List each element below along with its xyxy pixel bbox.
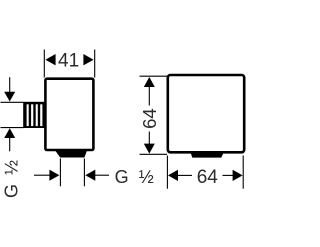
bottom-left G1/2 dimension: right extension line	[83, 159, 85, 187]
bottom 64 dimension: right extension line	[242, 156, 244, 189]
svg-text:64: 64	[197, 167, 219, 188]
svg-text:½: ½	[139, 167, 154, 187]
left G1/2 dimension: down arrowhead	[4, 92, 15, 102]
bottom 64 dimension: left extension line	[166, 156, 168, 189]
bottom 64 dimension: right line segment	[223, 174, 234, 176]
svg-text:41: 41	[58, 51, 79, 72]
face plate front view	[168, 75, 244, 152]
svg-text:G: G	[115, 167, 129, 187]
svg-text:64: 64	[139, 108, 160, 129]
left G1/2 dimension: up arrowhead	[4, 128, 15, 138]
left 64 dimension: top extension line	[140, 75, 168, 77]
bottom-left G1/2 dimension: right-pointing arrowhead	[49, 170, 59, 181]
dimension 41: right extension line	[94, 50, 96, 78]
left 64 dimension: bottom extension line	[140, 153, 168, 155]
outlet nub side view	[55, 150, 87, 158]
left G1/2 dimension: lower leader line	[9, 138, 11, 152]
threaded pipe	[23, 102, 44, 128]
left G1/2 dimension: top extension line	[1, 101, 24, 103]
svg-text:G ½: G ½	[2, 160, 22, 198]
wall plate side view	[45, 79, 93, 150]
left 64 dimension: up arrowhead	[144, 77, 155, 87]
left 64 dimension: upper line segment	[148, 87, 150, 106]
left 64 dimension: lower line segment	[148, 132, 150, 145]
dimension 41: left arrowhead	[45, 54, 55, 65]
bottom-left G1/2 dimension: left leader line	[34, 174, 50, 176]
left G1/2 dimension: bottom extension line	[1, 127, 24, 129]
left G1/2 dimension: upper leader line	[9, 77, 11, 92]
dimension 41: left extension line	[43, 50, 45, 78]
dimension 41: right arrowhead	[83, 54, 93, 65]
bottom 64 dimension: right arrowhead	[233, 170, 243, 181]
bottom 64 dimension: left arrowhead	[168, 170, 178, 181]
bottom-left G1/2 dimension: left-pointing arrowhead	[85, 170, 95, 181]
left 64 dimension: down arrowhead	[144, 144, 155, 154]
outlet nub front view	[190, 151, 224, 158]
bottom 64 dimension: left line segment	[178, 174, 193, 176]
bottom-left G1/2 dimension: right leader line	[95, 174, 109, 176]
bottom-left G1/2 dimension: left extension line	[59, 159, 61, 187]
